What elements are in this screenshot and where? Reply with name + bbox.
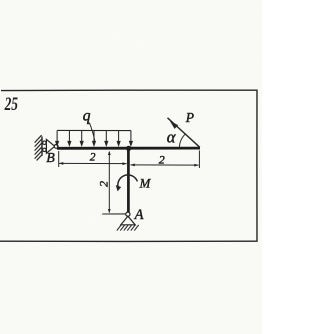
left dim arrow right	[122, 162, 126, 165]
right dim arrow left	[130, 164, 134, 167]
beam	[57, 147, 200, 150]
force P arrowhead	[170, 121, 178, 129]
vertical member	[127, 149, 130, 212]
junction node	[126, 146, 131, 151]
vertical dim arrow top	[108, 151, 111, 155]
roller circle upper at B	[43, 141, 46, 144]
pin circle at A	[126, 212, 130, 216]
pin circle at B	[54, 145, 58, 149]
wall hatching	[35, 135, 42, 160]
vertical dim tick	[102, 213, 127, 215]
left extension line	[58, 151, 60, 167]
frame border	[0, 90, 257, 241]
support B triangle	[46, 139, 54, 153]
vertical dimension line	[108, 152, 110, 212]
vertical dim arrow bottom	[108, 209, 111, 213]
right dim arrow right	[194, 164, 198, 167]
right dimension line	[130, 164, 198, 166]
left dim arrow left	[59, 162, 63, 165]
wall at support B	[41, 137, 43, 156]
moment M arrowhead	[116, 185, 122, 191]
q leader line	[89, 123, 95, 141]
roller circle lower at B	[43, 148, 46, 151]
distributed load q: top line	[57, 129, 131, 131]
distributed load arrows	[56, 131, 133, 146]
support A triangle	[121, 216, 135, 225]
scan noise overlay (decorative)	[0, 0, 1, 1]
support A hatching	[117, 225, 139, 231]
left dimension line	[59, 162, 127, 164]
angle alpha arc	[179, 134, 185, 147]
right extension line	[198, 151, 200, 169]
moment M arc	[118, 175, 138, 189]
force P line	[168, 118, 200, 148]
